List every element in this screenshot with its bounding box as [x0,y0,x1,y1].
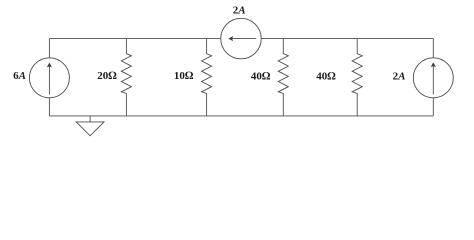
svg-text:2A: 2A [393,70,406,82]
svg-text:10Ω: 10Ω [174,70,194,82]
svg-text:40Ω: 40Ω [251,70,271,82]
svg-text:20Ω: 20Ω [97,70,117,82]
svg-text:2A: 2A [233,5,246,17]
svg-text:6A: 6A [13,70,26,82]
svg-text:40Ω: 40Ω [316,70,336,82]
